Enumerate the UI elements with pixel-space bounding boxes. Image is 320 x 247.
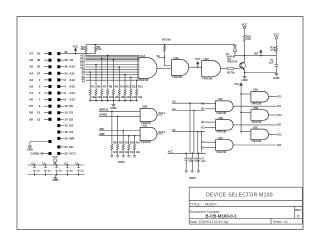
svg-text:40: 40 [64, 50, 68, 54]
capacitor C5 [33, 165, 36, 175]
connector pin 7 (A0) [49, 98, 52, 101]
wire caps bottom rail [28, 174, 85, 176]
junction [117, 116, 119, 118]
junction [67, 164, 69, 166]
junction [119, 66, 121, 68]
wire emitter [244, 69, 246, 75]
wire [134, 150, 136, 155]
junction [95, 44, 97, 46]
wire U2B out [157, 114, 163, 116]
svg-text:8: 8 [64, 98, 66, 102]
junction [197, 131, 199, 133]
wire D7 [44, 105, 49, 107]
connector pin 40 (VCC) [57, 52, 60, 55]
wire [101, 95, 103, 100]
svg-text:A15: A15 [69, 98, 75, 102]
wire stub [158, 57, 165, 59]
wire D5 [44, 118, 49, 120]
wire [234, 51, 236, 55]
svg-text:10k: 10k [91, 95, 96, 99]
wire bus A14 [85, 56, 139, 58]
resistor R3 [163, 46, 165, 52]
svg-text:A4: A4 [172, 107, 176, 111]
junction [244, 72, 246, 74]
wire pulldown 8 [130, 78, 132, 90]
svg-text:A0: A0 [29, 98, 33, 102]
svg-text:R8: R8 [109, 85, 113, 89]
ground [133, 155, 136, 158]
AND gate U5A [251, 91, 269, 102]
svg-text:10k: 10k [124, 151, 129, 154]
svg-text:D3: D3 [69, 124, 73, 128]
junction [34, 174, 36, 176]
ground [116, 155, 119, 158]
connector pin 5 (A1) [49, 92, 52, 95]
wire VCC caps rail [168, 152, 206, 154]
wire [185, 160, 187, 170]
junction [78, 174, 80, 176]
svg-text:R5: R5 [91, 85, 95, 89]
junction [45, 164, 47, 166]
svg-text:10k: 10k [109, 95, 114, 99]
svg-text:M100X: M100X [205, 203, 217, 207]
junction [95, 100, 97, 102]
svg-text:D7: D7 [29, 104, 33, 108]
svg-text:A12: A12 [69, 78, 75, 82]
junction [130, 77, 132, 79]
svg-text:.1uF: .1uF [268, 61, 274, 65]
svg-text:470: 470 [246, 37, 251, 41]
wire U4 out /S1 [233, 105, 276, 107]
svg-text:A4: A4 [29, 71, 33, 75]
AND gate U5B [251, 110, 269, 121]
VCC arrow [240, 83, 243, 88]
wire [122, 150, 124, 155]
resistor R6 [95, 89, 97, 95]
svg-text:A3: A3 [29, 78, 33, 82]
svg-text:GND: GND [110, 106, 116, 110]
wire feed down [201, 132, 203, 154]
svg-text:Sheet: 1/1: Sheet: 1/1 [273, 220, 288, 224]
transistor Q1 PN2222 [241, 62, 245, 70]
connector pin 22 (VCC) [57, 152, 60, 155]
svg-text:NC: NC [69, 145, 74, 149]
wire A6 [44, 59, 49, 61]
wire pulldown 5 [112, 60, 114, 90]
junction [240, 112, 242, 114]
wire pulldown 4 [107, 55, 109, 89]
svg-text:A3: A3 [172, 100, 176, 104]
resistor R22 [122, 144, 124, 150]
junction [124, 100, 126, 102]
svg-text:.1uF: .1uF [188, 160, 194, 163]
svg-text:/S2: /S2 [277, 123, 281, 127]
resistor R10 [118, 89, 120, 95]
junction [113, 59, 115, 61]
wire bus A12 [85, 59, 139, 61]
wire R3 down [164, 51, 166, 66]
svg-text:22: 22 [64, 152, 68, 156]
svg-text:10k: 10k [166, 38, 171, 42]
wire gate input B5 [205, 147, 216, 149]
svg-text:.1u: .1u [69, 170, 73, 173]
junction [189, 102, 191, 104]
svg-text:REV:: REV: [295, 208, 302, 212]
svg-text:U2A: U2A [174, 56, 179, 60]
resistor R18 [243, 35, 245, 42]
wire VCC rail [76, 53, 96, 55]
wire [117, 150, 119, 155]
wire A4 [44, 72, 49, 74]
svg-text:10k: 10k [120, 95, 125, 99]
capacitor C9 [77, 165, 80, 175]
junction [34, 164, 36, 166]
wire [185, 153, 187, 158]
junction [164, 44, 166, 46]
svg-text:7: 7 [39, 98, 41, 102]
wire [128, 150, 130, 155]
svg-text:10k: 10k [80, 47, 85, 51]
svg-text:10k: 10k [97, 47, 102, 51]
wire bus A6 [85, 74, 139, 76]
svg-text:24: 24 [64, 145, 68, 149]
connector pin 8 (A15) [57, 98, 60, 101]
svg-text:A13: A13 [69, 84, 75, 88]
wire [112, 95, 114, 100]
svg-text:Date: 2/25/2013 04:10:11p: Date: 2/25/2013 04:10:11p [190, 220, 229, 224]
wire pulldown [122, 131, 124, 145]
svg-text:74HC08: 74HC08 [141, 140, 151, 144]
svg-text:74HC08: 74HC08 [202, 76, 212, 80]
ground [111, 103, 115, 106]
svg-text:D1: D1 [69, 111, 73, 115]
wire pulldown 3 [101, 58, 103, 89]
svg-text:74HC08: 74HC08 [251, 120, 261, 124]
wire U4 out /S3 [233, 144, 276, 146]
connector pin 21 [49, 152, 52, 155]
svg-text:A5: A5 [172, 128, 176, 132]
junction [240, 131, 242, 133]
ground [274, 73, 278, 76]
AND gate U1A (8-input) [138, 58, 157, 79]
svg-text:D2: D2 [69, 117, 73, 121]
svg-text:11: 11 [37, 111, 41, 115]
ground [191, 170, 194, 173]
svg-text:74HC08: 74HC08 [251, 139, 261, 143]
connector pin 13 (D5) [49, 118, 52, 121]
svg-text:VCC: VCC [274, 33, 280, 37]
wire GND row [30, 141, 49, 143]
svg-text:GND: GND [241, 78, 247, 82]
svg-text:GND: GND [189, 176, 196, 180]
AND gate U2A [172, 60, 189, 76]
wire to U2 input [165, 65, 172, 67]
connector pin 33 (A6) [49, 59, 52, 62]
junction [89, 71, 91, 73]
wire gate input B4 [205, 141, 216, 143]
wire node INT [235, 55, 276, 57]
wire feed down [189, 103, 191, 153]
svg-text:.1u: .1u [36, 170, 40, 173]
svg-text:10k: 10k [97, 95, 102, 99]
wire D1 [60, 112, 63, 114]
svg-text:6: 6 [64, 91, 66, 95]
wire [130, 95, 132, 100]
VCC arrow on node [260, 50, 263, 56]
wire D6 [44, 112, 49, 114]
junction [75, 53, 77, 55]
resistor R7 [101, 89, 103, 95]
resistor R5 [89, 89, 91, 95]
wire D3 [60, 125, 63, 127]
svg-text:U5A: U5A [253, 88, 258, 92]
svg-text:DEVICE SELECTOR M100: DEVICE SELECTOR M100 [206, 192, 273, 198]
wire bus A5 [85, 77, 139, 79]
connector pin 1 (A3) [49, 78, 52, 81]
svg-text:A14: A14 [69, 91, 75, 95]
resistor R2 [94, 46, 96, 52]
svg-text:10k: 10k [119, 151, 124, 154]
svg-text:/RD: /RD [99, 127, 104, 131]
wire collector [244, 56, 246, 62]
svg-text:GND: GND [118, 160, 125, 164]
resistor R23 [128, 144, 130, 150]
svg-text:A2: A2 [29, 84, 33, 88]
connector pin 12 (D1) [57, 111, 60, 114]
svg-text:74HC30: 74HC30 [139, 78, 149, 82]
resistor R17 (base series) [227, 68, 233, 70]
resistor R9 [112, 89, 114, 95]
svg-text:1N4148: 1N4148 [226, 56, 235, 59]
capacitor C4 [197, 158, 201, 160]
svg-text:1k: 1k [232, 70, 236, 74]
svg-text:20: 20 [64, 136, 68, 140]
wire pulldown 9 [136, 80, 138, 89]
wire R2 top [95, 45, 97, 47]
wire NC [60, 146, 63, 148]
svg-text:74HC08: 74HC08 [251, 102, 261, 106]
svg-text:U4B: U4B [218, 116, 223, 120]
AND gate U2B [140, 108, 157, 121]
svg-text:.1uF: .1uF [201, 160, 207, 163]
svg-text:SEL1: SEL1 [158, 111, 165, 115]
junction [201, 131, 203, 133]
wire GND rail [245, 72, 277, 74]
svg-text:37: 37 [37, 71, 41, 75]
junction [45, 174, 47, 176]
junction [130, 100, 132, 102]
ground [28, 145, 32, 148]
svg-text:74HC08: 74HC08 [172, 75, 182, 79]
wire feed B1 [172, 110, 205, 112]
wire A2 [44, 85, 49, 87]
junction [111, 111, 113, 113]
svg-text:R13: R13 [138, 85, 143, 89]
wire [111, 150, 113, 155]
junction [136, 79, 138, 81]
ground [197, 170, 200, 173]
connector pin 14 (D2) [57, 118, 60, 121]
wire /E3 [269, 133, 278, 135]
svg-text:10k: 10k [115, 95, 120, 99]
wire pulled-up rail [86, 44, 235, 46]
wire pulldown [128, 136, 130, 145]
svg-text:R6: R6 [97, 85, 101, 89]
svg-text:U5B: U5B [253, 106, 258, 110]
svg-text:/E2: /E2 [278, 113, 283, 117]
wire A1 [44, 92, 49, 94]
wire gate input B2 [205, 121, 216, 123]
wire A12 [60, 79, 63, 81]
wire [95, 95, 97, 100]
wire A7 [44, 53, 49, 55]
wire feed down [197, 132, 199, 154]
connector pin 38 (A9) [57, 59, 60, 62]
svg-text:.1u: .1u [58, 170, 62, 173]
junction [95, 64, 97, 66]
wire [29, 142, 31, 145]
wire [89, 95, 91, 100]
svg-text:A1: A1 [29, 91, 33, 95]
wire A14 [60, 92, 63, 94]
svg-text:A4: A4 [81, 79, 85, 83]
wire [118, 95, 120, 100]
svg-text:4.7k: 4.7k [270, 48, 276, 52]
svg-text:.1u: .1u [47, 170, 51, 173]
wire A15 [60, 99, 63, 101]
connector pin 31 (A7) [49, 52, 52, 55]
capacitor C2 [184, 158, 188, 160]
wire [275, 66, 277, 72]
svg-text:74HC08: 74HC08 [216, 130, 226, 134]
junction [78, 164, 80, 166]
svg-text:10k: 10k [113, 151, 118, 154]
wire U2C out [157, 133, 163, 135]
svg-text:34: 34 [64, 71, 68, 75]
wire /E2 [269, 114, 278, 116]
svg-text:D5: D5 [29, 117, 33, 121]
svg-text:B2: B2 [201, 120, 205, 124]
svg-text:.1u: .1u [80, 170, 84, 173]
svg-text:INT: INT [254, 52, 259, 56]
wire [136, 95, 138, 100]
junction [56, 164, 58, 166]
junction [89, 100, 91, 102]
wire IORQ [99, 115, 140, 117]
svg-text:B-CB-M100-0-1: B-CB-M100-0-1 [205, 213, 237, 218]
junction [198, 153, 200, 155]
connector pin 9 (D7) [49, 105, 52, 108]
VCC symbol [243, 26, 246, 35]
junction [164, 57, 166, 59]
wire [42, 153, 49, 155]
wire A5 [44, 66, 49, 68]
wire D2 [60, 118, 63, 120]
wire A9 [60, 59, 63, 61]
wire feed B0 [172, 102, 205, 104]
svg-text:R9: R9 [115, 85, 119, 89]
ground [185, 170, 188, 173]
ground [242, 75, 246, 78]
connector pin 6 (A14) [57, 92, 60, 95]
ground [127, 155, 130, 158]
svg-text:WR: WR [69, 136, 75, 140]
svg-text:SEL2: SEL2 [158, 130, 165, 134]
connector pin 39 (GND) [49, 140, 52, 143]
svg-text:74HC08: 74HC08 [216, 150, 226, 154]
svg-text:U2B: U2B [142, 105, 147, 109]
svg-text:R24: R24 [136, 141, 141, 144]
svg-text:.1uF: .1uF [195, 160, 201, 163]
svg-text:D4: D4 [69, 130, 73, 134]
svg-text:/E1: /E1 [278, 95, 283, 99]
wire [191, 153, 193, 158]
junction [197, 66, 199, 68]
connector pin 11 (D6) [49, 111, 52, 114]
junction [67, 174, 69, 176]
resistor R24 [133, 144, 135, 150]
svg-text:14: 14 [64, 117, 68, 121]
svg-text:/IORQ: /IORQ [99, 113, 107, 117]
wire R2 bottom [95, 52, 97, 54]
svg-text:A7: A7 [29, 52, 33, 56]
wire col2 input [241, 93, 251, 95]
wire col2 input [241, 131, 251, 133]
wire [244, 42, 246, 56]
svg-text:16: 16 [64, 124, 68, 128]
ground [122, 155, 125, 158]
svg-text:PN2222: PN2222 [227, 59, 237, 63]
capacitor C1 [275, 65, 279, 67]
wire pulldown [134, 136, 136, 145]
svg-text:33: 33 [37, 58, 41, 62]
svg-text:/MREQ: /MREQ [99, 108, 108, 112]
wire U4 out /S2 [233, 124, 276, 126]
junction [107, 55, 109, 57]
wire /E1 [269, 96, 278, 98]
wire bus A10 [85, 64, 139, 66]
wire [164, 45, 166, 46]
svg-text:D0: D0 [69, 104, 73, 108]
connector pin 34 (A11) [57, 72, 60, 75]
wire D4 [60, 131, 63, 133]
wire [234, 45, 236, 46]
svg-text:U4C: U4C [218, 136, 223, 140]
svg-text:VCC: VCC [69, 152, 76, 156]
junction [113, 100, 115, 102]
wire bus A8 [85, 69, 139, 71]
wire [124, 95, 126, 100]
svg-text:9: 9 [39, 104, 41, 108]
svg-text:R7: R7 [103, 85, 107, 89]
svg-text:U5C: U5C [253, 125, 258, 129]
wire D0 [60, 105, 63, 107]
wire feed down [193, 111, 195, 154]
svg-text:13: 13 [37, 117, 41, 121]
svg-text:35: 35 [37, 65, 41, 69]
wire to ground [54, 175, 56, 177]
svg-text:18: 18 [64, 130, 68, 134]
wire U3 out [221, 68, 228, 70]
wire bus A13 [85, 57, 139, 59]
connector pin 4 (A13) [57, 85, 60, 88]
diode D1 1N4148 [233, 46, 237, 51]
wire bus A15 [85, 54, 139, 56]
svg-text:B3: B3 [201, 125, 205, 129]
junction [128, 135, 130, 137]
resistor R11 [124, 89, 126, 95]
svg-text:/E3: /E3 [278, 132, 283, 136]
